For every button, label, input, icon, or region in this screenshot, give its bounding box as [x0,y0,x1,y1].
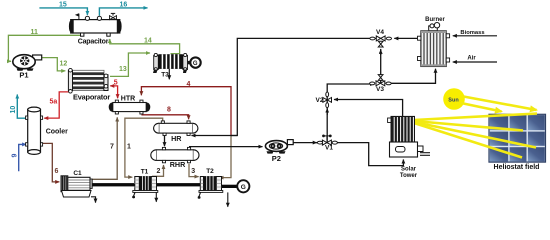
svg-text:Tower: Tower [400,173,418,179]
svg-text:13: 13 [119,66,127,73]
svg-text:1: 1 [127,144,131,151]
svg-text:12: 12 [60,61,68,68]
svg-text:5: 5 [114,79,118,86]
svg-text:6: 6 [55,168,59,175]
svg-text:Heliostat field: Heliostat field [494,164,540,171]
svg-text:8: 8 [167,107,171,114]
svg-text:T2: T2 [206,168,214,175]
svg-text:15: 15 [59,2,67,9]
svg-text:Biomass: Biomass [460,30,484,36]
svg-text:Solar: Solar [401,167,417,173]
svg-text:P1: P1 [19,71,28,80]
svg-text:G: G [193,61,198,67]
svg-text:Evaporator: Evaporator [73,93,110,102]
svg-text:14: 14 [144,38,152,45]
svg-text:4: 4 [187,81,191,88]
svg-text:HTR: HTR [121,95,135,102]
svg-text:Air: Air [467,55,476,61]
svg-text:G: G [241,184,246,191]
svg-text:V1: V1 [325,145,333,152]
svg-text:7: 7 [110,144,114,151]
svg-text:Sun: Sun [448,98,459,104]
svg-text:3: 3 [191,168,195,175]
svg-text:11: 11 [31,29,39,36]
svg-text:10: 10 [10,106,17,114]
svg-text:T3: T3 [161,71,169,78]
svg-text:5a: 5a [50,99,58,106]
svg-text:16: 16 [120,2,128,9]
svg-text:V2: V2 [316,97,324,104]
svg-text:2: 2 [157,168,161,175]
svg-text:V3: V3 [376,86,384,93]
svg-text:T1: T1 [141,168,149,175]
svg-text:9: 9 [12,154,19,158]
svg-text:HR: HR [171,134,182,143]
svg-text:RHR: RHR [170,160,186,169]
svg-text:V4: V4 [376,29,384,36]
svg-text:C1: C1 [73,170,82,177]
svg-text:Burner: Burner [425,17,445,23]
svg-text:Capacitor: Capacitor [78,39,109,46]
svg-text:Cooler: Cooler [46,129,68,136]
svg-text:P2: P2 [272,154,281,163]
